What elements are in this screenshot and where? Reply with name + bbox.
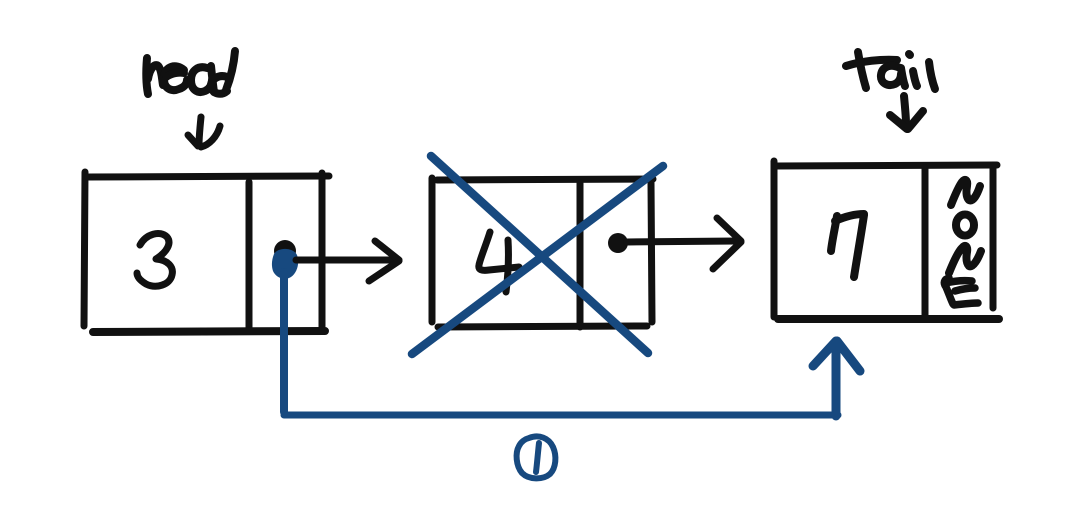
head label <box>146 51 235 94</box>
node3 box bottom edge <box>778 315 999 323</box>
NONE text letter N <box>951 180 980 205</box>
node3 box divider <box>922 168 929 318</box>
node1 box right edge <box>319 173 326 331</box>
node2 box left edge <box>429 178 436 322</box>
node1 box top edge <box>88 176 329 177</box>
node2 box right edge <box>651 182 652 322</box>
tail label <box>846 52 935 89</box>
node2 box divider <box>577 183 584 327</box>
node1 pointer dot (black) <box>274 240 296 262</box>
value 3 <box>137 234 172 287</box>
deletion cross stroke 1 <box>431 156 648 353</box>
head arrow (down) <box>188 117 220 147</box>
step badge circled 1 <box>517 436 556 478</box>
node3 box top edge <box>776 165 997 166</box>
arrow node1 to node2 <box>296 241 399 281</box>
blue bypass wire: down segment <box>280 272 288 412</box>
node1 box divider <box>246 182 253 328</box>
node2 box top edge <box>437 179 653 180</box>
node1 box bottom edge <box>93 331 325 332</box>
NONE text letter O <box>956 215 974 236</box>
tail arrow (down) <box>890 96 923 129</box>
node1 box left edge <box>84 172 85 326</box>
blue bypass wire: horizontal segment <box>284 412 838 419</box>
blue bypass wire: up segment with arrowhead <box>813 341 860 416</box>
node1 pointer dot blue overlay <box>272 249 298 279</box>
NONE text letter N <box>949 246 981 273</box>
node3 box left edge <box>771 161 778 317</box>
arrow node2 to node3 <box>627 218 741 269</box>
node3 box right edge <box>990 165 997 308</box>
value 4 <box>479 232 519 292</box>
NONE text letter E <box>944 278 978 305</box>
node2 pointer dot <box>608 233 628 253</box>
deletion cross stroke 2 <box>412 166 663 354</box>
value 7 <box>831 214 864 277</box>
node2 box bottom edge <box>438 326 647 327</box>
